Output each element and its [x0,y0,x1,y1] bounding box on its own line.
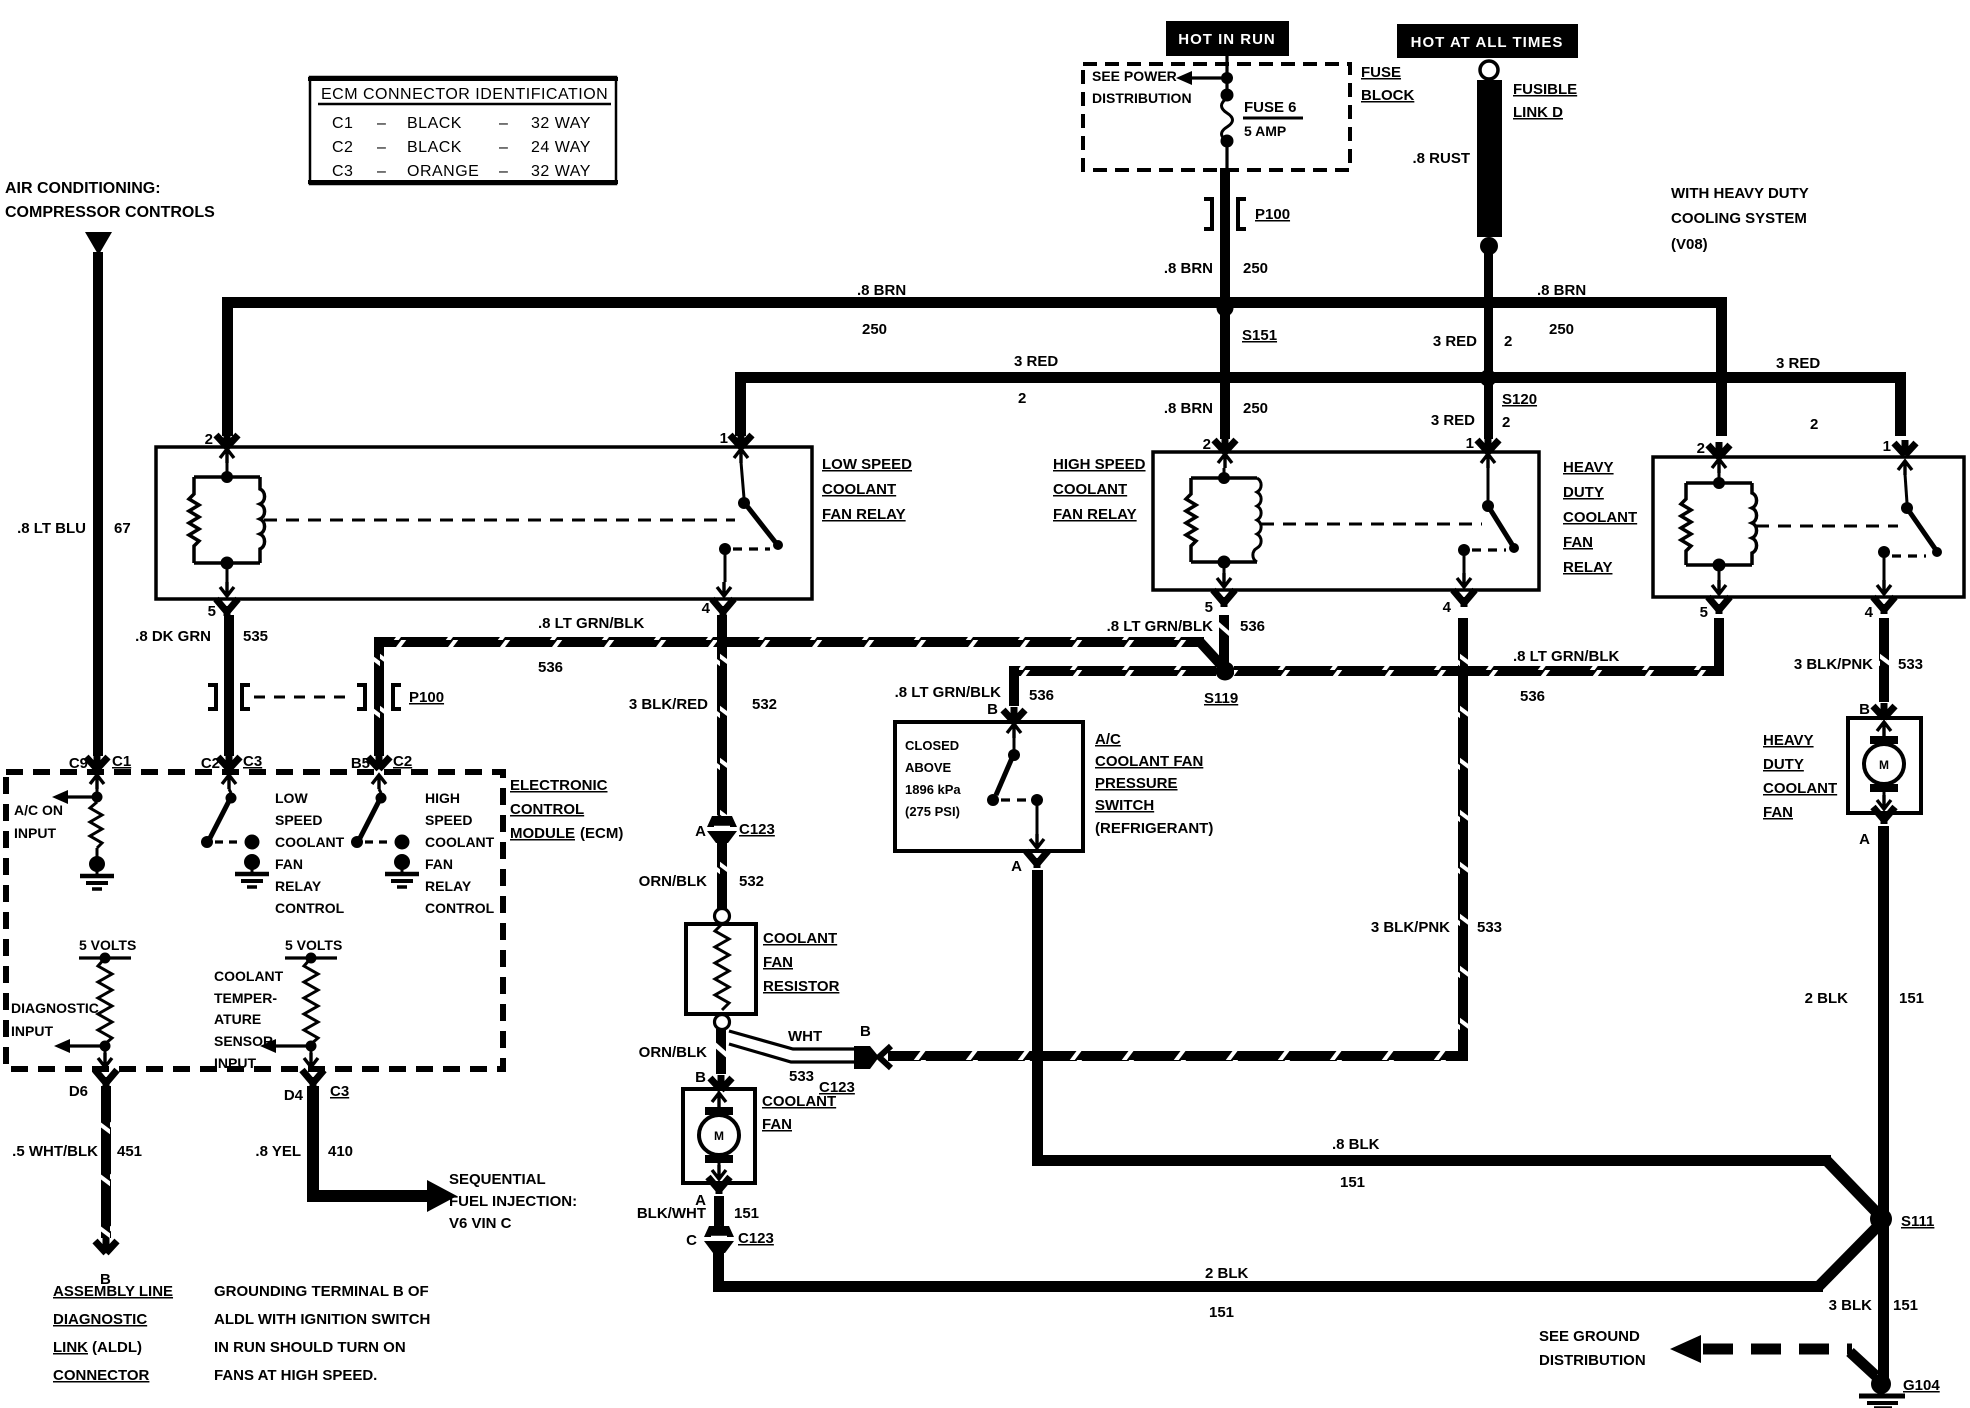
svg-text:5 AMP: 5 AMP [1244,123,1286,139]
HD relay switch [1877,474,1942,594]
svg-text:RELAY: RELAY [275,878,322,894]
HS relay coil [1186,468,1261,569]
svg-text:A: A [1859,831,1870,848]
splice S120 [1480,370,1538,432]
svg-text:ECM CONNECTOR IDENTIFICATION: ECM CONNECTOR IDENTIFICATION [321,86,608,103]
svg-text:INPUT: INPUT [11,1023,53,1039]
pressure switch A pin connector [1011,851,1048,875]
svg-text:DUTY: DUTY [1763,756,1804,773]
label COOLANT FAN RESISTOR [763,930,840,995]
label .8 LT GRN/BLK 536 at pressure switch [895,684,1054,718]
svg-text:536: 536 [1520,688,1545,705]
svg-text:4: 4 [702,600,711,617]
label .5 WHT/BLK 451 [12,1143,142,1160]
svg-text:451: 451 [117,1143,142,1160]
svg-text:C3: C3 [243,753,262,770]
label A/C COOLANT FAN PRESSURE SWITCH (REFRIGERANT) [1095,731,1213,837]
svg-text:HEAVY: HEAVY [1763,732,1814,749]
svg-text:32 WAY: 32 WAY [531,115,591,132]
svg-text:.8 LT GRN/BLK: .8 LT GRN/BLK [538,615,645,632]
coolant fan box [683,1089,755,1183]
arrow to sequential fuel injection [427,1180,457,1212]
svg-text:3 BLK/PNK: 3 BLK/PNK [1371,919,1450,936]
svg-text:FAN RELAY: FAN RELAY [1053,506,1137,523]
label HEAVY DUTY COOLANT FAN [1763,732,1837,821]
svg-text:V6 VIN C: V6 VIN C [449,1215,512,1232]
svg-text:.8 YEL: .8 YEL [255,1143,301,1160]
svg-text:5: 5 [208,603,216,620]
svg-text:FUSE: FUSE [1361,64,1401,81]
label 2 BLK 151 bottom [1205,1265,1249,1321]
svg-text:536: 536 [1029,687,1054,704]
svg-text:C2: C2 [393,753,412,770]
svg-text:ALDL WITH IGNITION SWITCH: ALDL WITH IGNITION SWITCH [214,1311,430,1328]
splice S111 [1870,1208,1934,1230]
svg-text:.8 BRN: .8 BRN [1164,400,1213,417]
svg-text:.8 LT GRN/BLK: .8 LT GRN/BLK [1107,618,1214,635]
svg-text:COOLANT: COOLANT [762,1093,836,1110]
svg-text:–: – [499,139,508,156]
A/C coolant fan pressure switch box [895,722,1083,851]
HD relay pin 2 connector [1697,440,1730,473]
coolant temp sensor input: 5 VOLTS resistor [260,937,342,1067]
svg-text:A: A [1011,858,1022,875]
wire 3 RED 2 horizontal bus [735,372,1906,436]
ECM pin D4 connector [284,1070,349,1104]
wire ORN/BLK to coolant fan B [716,1029,726,1074]
ground G104 [1859,1374,1940,1408]
svg-text:533: 533 [789,1068,814,1085]
label FUSE 6 / 5 AMP [1243,99,1303,139]
ground at low speed control [235,854,269,887]
banner HOT IN RUN [1166,21,1289,56]
label WHT 533 [788,1023,871,1085]
svg-text:DIAGNOSTIC: DIAGNOSTIC [11,1000,99,1016]
svg-text:DISTRIBUTION: DISTRIBUTION [1539,1352,1646,1369]
wire 536 vertical from P100 to ECM B5 [374,637,384,756]
svg-text:HIGH: HIGH [425,790,460,806]
label BLK/WHT 151 [637,1205,759,1222]
HD relay pin 5 connector [1700,571,1730,621]
svg-text:2: 2 [1203,436,1211,453]
svg-text:RESISTOR: RESISTOR [763,978,840,995]
svg-text:B: B [987,701,998,718]
label .8 DK GRN 535 [135,628,268,645]
label SEQUENTIAL FUEL INJECTION: V6 VIN C [449,1171,577,1232]
wire from HOT IN RUN into fuse [1225,56,1228,95]
svg-text:ASSEMBLY LINE: ASSEMBLY LINE [53,1283,173,1300]
svg-text:LOW: LOW [275,790,308,806]
svg-text:PRESSURE: PRESSURE [1095,775,1178,792]
svg-text:COOLANT: COOLANT [214,968,284,984]
svg-text:5 VOLTS: 5 VOLTS [79,937,136,953]
svg-text:C123: C123 [739,821,775,838]
svg-text:DUTY: DUTY [1563,484,1604,501]
svg-text:535: 535 [243,628,268,645]
svg-text:250: 250 [1549,321,1574,338]
svg-text:3 BLK: 3 BLK [1829,1297,1873,1314]
svg-text:3 RED: 3 RED [1431,412,1475,429]
label 2 BLK 151 [1805,990,1924,1007]
splice S151 [1217,300,1278,345]
HS relay coil-switch dashed link [1261,523,1482,526]
pressure switch B pin connector [1003,707,1025,738]
svg-text:ABOVE: ABOVE [905,760,952,775]
svg-text:COOLANT: COOLANT [275,834,345,850]
label LOW SPEED COOLANT FAN RELAY [822,456,912,523]
svg-text:(275 PSI): (275 PSI) [905,804,960,819]
wire .5 WHT/BLK 451 to ALDL [101,1086,111,1238]
label A/C ON INPUT [14,802,63,841]
svg-text:.5 WHT/BLK: .5 WHT/BLK [12,1143,98,1160]
wire .8 BLK 151 from pressure switch A to S111 [1032,870,1882,1218]
svg-text:WITH HEAVY DUTY: WITH HEAVY DUTY [1671,185,1809,202]
svg-text:COOLANT: COOLANT [822,481,896,498]
svg-text:P100: P100 [1255,206,1290,223]
svg-text:C3: C3 [330,1083,349,1100]
wire 2 BLK 151 from fan to S111 [713,1222,1882,1292]
svg-text:1896 kPa: 1896 kPa [905,782,961,797]
svg-text:3 RED: 3 RED [1014,353,1058,370]
wire .8 LT BLU from compressor controls [85,232,112,756]
svg-text:BLK/WHT: BLK/WHT [637,1205,706,1222]
high speed relay control switch [351,789,410,850]
svg-text:SPEED: SPEED [425,812,472,828]
label 3 RED 2 above S120 [1433,333,1513,350]
svg-text:532: 532 [739,873,764,890]
HS relay pin 5 connector [1205,568,1235,616]
svg-text:536: 536 [538,659,563,676]
HD relay coil-switch dashed link [1756,525,1898,528]
label 3 BLK/RED 532 [629,696,777,713]
svg-text:B: B [1859,701,1870,718]
label 3 RED 2 right [1776,355,1820,433]
svg-text:P100: P100 [409,689,444,706]
svg-text:S120: S120 [1502,391,1537,408]
svg-text:2: 2 [205,431,213,448]
svg-text:HOT IN RUN: HOT IN RUN [1178,31,1276,48]
svg-text:COOLING SYSTEM: COOLING SYSTEM [1671,210,1807,227]
label .8 BLK 151 [1332,1136,1380,1191]
svg-text:ATURE: ATURE [214,1011,261,1027]
pressure switch contacts [987,738,1044,848]
label .8 LT GRN/BLK 536 right segment [1513,648,1620,705]
svg-text:2 BLK: 2 BLK [1205,1265,1249,1282]
diagnostic input divider: 5 VOLTS resistor [54,937,136,1067]
svg-text:RELAY: RELAY [1563,559,1612,576]
label .8 YEL 410 [255,1143,353,1160]
svg-text:ORANGE: ORANGE [407,163,479,180]
coolant fan A connector [695,1177,730,1209]
wire 536 left of S119 to pressure switch [1009,666,1216,706]
svg-text:AIR CONDITIONING:: AIR CONDITIONING: [5,180,161,197]
svg-text:S119: S119 [1204,690,1238,707]
A/C on input circuit [52,789,103,858]
LS relay pin 1 connector [720,430,752,463]
label HEAVY DUTY COOLANT FAN RELAY [1563,459,1637,576]
label WITH HEAVY DUTY COOLING SYSTEM (V08) [1671,185,1809,253]
label .8 BRN 250 right [1537,282,1586,338]
svg-text:1: 1 [1883,438,1891,455]
svg-text:151: 151 [1340,1174,1365,1191]
connector P100 on DK GRN wire and 536 wire [208,685,444,709]
svg-text:24 WAY: 24 WAY [531,139,591,156]
svg-text:HOT AT ALL TIMES: HOT AT ALL TIMES [1411,34,1564,51]
svg-text:533: 533 [1898,656,1923,673]
label ELECTRONIC CONTROL MODULE (ECM) [510,777,623,842]
wire WHT 533 (hollow) [729,1031,856,1062]
LS relay pin 5 connector [208,569,238,620]
fuse F6 element [1221,89,1234,173]
svg-text:COOLANT: COOLANT [1053,481,1127,498]
wire 3 BLK 151 from S111 to G104 [1878,1219,1889,1384]
relay: HEAVY DUTY COOLANT FAN RELAY box [1653,457,1964,597]
svg-text:3 BLK/PNK: 3 BLK/PNK [1794,656,1873,673]
label .8 LT GRN/BLK 536 left segment [538,615,645,676]
fusible link D [1477,61,1502,255]
svg-text:.8 BRN: .8 BRN [857,282,906,299]
HD fan B connector [1859,701,1895,718]
svg-text:COOLANT: COOLANT [1763,780,1837,797]
HD relay coil [1681,473,1757,572]
svg-text:CONTROL: CONTROL [510,801,584,818]
wire 3 RED from fusible link down to relay [1484,250,1493,439]
svg-text:(REFRIGERANT): (REFRIGERANT) [1095,820,1213,837]
svg-text:–: – [499,163,508,180]
ECM pin C2/C3 connector [201,753,262,789]
svg-text:C3: C3 [332,163,353,180]
fuse block dashed box [1083,64,1350,170]
svg-text:BLACK: BLACK [407,139,462,156]
svg-text:S111: S111 [1901,1213,1934,1230]
svg-text:CONNECTOR: CONNECTOR [53,1367,150,1384]
ECM dashed box [6,772,503,1069]
svg-text:A: A [695,823,706,840]
svg-text:(V08): (V08) [1671,236,1708,253]
svg-text:–: – [377,115,386,132]
svg-text:250: 250 [1243,260,1268,277]
banner HOT AT ALL TIMES [1397,24,1578,58]
wire .8 BRN 250 from fuse down to relay [1220,168,1230,439]
svg-text:HIGH SPEED: HIGH SPEED [1053,456,1146,473]
heavy duty coolant fan box [1848,718,1921,813]
coolant fan B connector [710,1075,732,1090]
svg-text:536: 536 [1240,618,1265,635]
ALDL B terminal [95,1238,117,1288]
svg-text:LINK: LINK [53,1339,88,1356]
label AIR CONDITIONING: COMPRESSOR CONTROLS [5,180,215,221]
svg-text:ELECTRONIC: ELECTRONIC [510,777,608,794]
svg-text:ORN/BLK: ORN/BLK [639,873,707,890]
label FUSIBLE LINK D [1513,81,1577,121]
svg-text:4: 4 [1443,599,1452,616]
HD relay pin 4 connector [1865,597,1895,621]
svg-text:IN RUN SHOULD TURN ON: IN RUN SHOULD TURN ON [214,1339,406,1356]
svg-text:2 BLK: 2 BLK [1805,990,1849,1007]
LS relay coil [189,463,265,570]
ground at A/C on input [80,856,114,889]
wire 3 BLK/PNK 533 horizontal to HS pin4 [888,618,1468,1061]
arrow to power distribution [1176,71,1230,85]
svg-text:COOLANT FAN: COOLANT FAN [1095,753,1203,770]
wire 3 BLK/RED 532 from LS pin4 [717,615,727,818]
svg-text:INPUT: INPUT [214,1055,256,1071]
HS relay pin 4 connector [1443,590,1475,616]
svg-text:.8 BRN: .8 BRN [1537,282,1586,299]
svg-text:G104: G104 [1903,1377,1940,1394]
svg-text:FAN: FAN [1763,804,1793,821]
wire .8 DK GRN 535 from LS pin5 to ECM C2 [224,615,234,756]
svg-text:CONTROL: CONTROL [275,900,345,916]
label .8 LT BLU 67 [17,520,131,537]
svg-text:LINK D: LINK D [1513,104,1563,121]
note text GROUNDING TERMINAL [214,1283,430,1384]
svg-text:2: 2 [1810,416,1818,433]
svg-text:.8 LT GRN/BLK: .8 LT GRN/BLK [1513,648,1620,665]
svg-text:C1: C1 [332,115,353,132]
svg-text:–: – [377,139,386,156]
svg-text:S151: S151 [1242,327,1277,344]
svg-text:FUSIBLE: FUSIBLE [1513,81,1577,98]
svg-text:2: 2 [1502,414,1510,431]
svg-text:.8 LT BLU: .8 LT BLU [17,520,86,537]
svg-text:DIAGNOSTIC: DIAGNOSTIC [53,1311,147,1328]
label 3 RED 2 left [1014,353,1058,407]
relay: HIGH SPEED COOLANT FAN RELAY box [1153,452,1539,590]
label FUSE BLOCK [1361,64,1414,104]
label .8 BRN 250 left [857,282,906,338]
svg-text:B: B [860,1023,871,1040]
svg-text:–: – [377,163,386,180]
svg-text:1: 1 [1466,435,1474,452]
label ORN/BLK at fan B [639,1044,707,1086]
svg-text:INPUT: INPUT [14,825,56,841]
HD relay pin 1 connector [1883,438,1916,475]
label COOLANT FAN [762,1093,836,1133]
svg-text:2: 2 [1504,333,1512,350]
label HIGH SPEED COOLANT FAN RELAY [1053,456,1146,523]
label COOLANT TEMPERATURE SENSOR INPUT [214,968,284,1071]
svg-text:HEAVY: HEAVY [1563,459,1614,476]
svg-text:32 WAY: 32 WAY [531,163,591,180]
svg-text:SWITCH: SWITCH [1095,797,1154,814]
svg-text:RELAY: RELAY [425,878,472,894]
connector C123 A [695,816,775,843]
HS relay pin 1 connector [1466,435,1499,468]
svg-text:FAN: FAN [1563,534,1593,551]
arrow see ground distribution [1670,1335,1876,1376]
svg-text:.8 BRN: .8 BRN [1164,260,1213,277]
label .8 LT GRN/BLK 536 at HS pin 5 [1107,618,1265,635]
svg-text:SENSOR: SENSOR [214,1033,273,1049]
ECM pin B5/C2 connector [351,753,412,789]
ECM connector identification table [308,77,618,184]
connector P100 on fuse wire [1204,199,1290,229]
heavy duty fan motor [1864,722,1904,809]
svg-text:FUEL INJECTION:: FUEL INJECTION: [449,1193,577,1210]
wire .8 LT GRN/BLK 536 top horizontal [374,637,1222,666]
svg-text:5: 5 [1700,604,1708,621]
svg-text:COOLANT: COOLANT [763,930,837,947]
svg-text:FAN: FAN [275,856,303,872]
svg-text:SEE GROUND: SEE GROUND [1539,1328,1640,1345]
svg-text:C: C [686,1232,697,1249]
HS relay pin 2 connector [1203,436,1236,468]
wire 536 from HS pin5 to S119 [1219,615,1229,671]
svg-text:151: 151 [1899,990,1924,1007]
svg-text:67: 67 [114,520,131,537]
svg-text:D4: D4 [284,1087,304,1104]
svg-text:GROUNDING TERMINAL B OF: GROUNDING TERMINAL B OF [214,1283,429,1300]
svg-text:3 RED: 3 RED [1776,355,1820,372]
wire 3 BLK/PNK 533 from HD pin4 to HD fan B [1879,618,1889,702]
coolant fan motor [699,1093,739,1179]
connector C123 B (horizontal) [819,1046,891,1096]
wire ORN/BLK 532 to resistor [717,843,727,911]
node fuse top [1221,72,1233,84]
svg-text:3 BLK/RED: 3 BLK/RED [629,696,708,713]
svg-text:B: B [695,1069,706,1086]
low speed relay control switch [201,789,260,850]
label 3 BLK/PNK 533 [1371,919,1502,936]
svg-text:250: 250 [1243,400,1268,417]
svg-text:151: 151 [734,1205,759,1222]
svg-text:–: – [499,115,508,132]
svg-text:BLACK: BLACK [407,115,462,132]
svg-text:BLOCK: BLOCK [1361,87,1414,104]
svg-text:5: 5 [1205,599,1213,616]
svg-text:2: 2 [1697,440,1705,457]
svg-text:A/C: A/C [1095,731,1121,748]
relay: LOW SPEED COOLANT FAN RELAY box [156,447,812,599]
svg-text:A/C ON: A/C ON [14,802,63,818]
svg-text:CLOSED: CLOSED [905,738,959,753]
svg-text:FAN: FAN [763,954,793,971]
label DIAGNOSTIC INPUT [11,1000,99,1039]
LS relay switch [717,462,783,596]
svg-text:LOW SPEED: LOW SPEED [822,456,912,473]
svg-text:532: 532 [752,696,777,713]
svg-text:151: 151 [1209,1304,1234,1321]
label ASSEMBLY LINE DIAGNOSTIC LINK (ALDL) CONNECTOR [53,1283,173,1384]
svg-text:C2: C2 [332,139,353,156]
ECM pin C9/C1 connector [69,753,131,789]
LS relay coil-switch dashed link [264,519,735,522]
svg-text:2: 2 [1018,390,1026,407]
ECM pin D6 connector [69,1070,117,1100]
wire 2 BLK 151 from HD fan to S111 [1878,826,1889,1216]
svg-text:250: 250 [862,321,887,338]
svg-text:151: 151 [1893,1297,1918,1314]
svg-text:CONTROL: CONTROL [425,900,495,916]
svg-text:D6: D6 [69,1083,88,1100]
wire .8 YEL 410 [307,1086,429,1202]
svg-text:B5: B5 [351,755,370,772]
svg-text:TEMPER-: TEMPER- [214,990,277,1006]
svg-text:3 RED: 3 RED [1433,333,1477,350]
svg-text:.8 BLK: .8 BLK [1332,1136,1380,1153]
svg-text:C2: C2 [201,755,220,772]
svg-text:410: 410 [328,1143,353,1160]
coolant fan resistor [686,909,756,1030]
svg-text:DISTRIBUTION: DISTRIBUTION [1092,90,1192,106]
svg-text:COOLANT: COOLANT [1563,509,1637,526]
label HIGH SPEED COOLANT FAN RELAY CONTROL [425,790,495,916]
svg-text:.8 DK GRN: .8 DK GRN [135,628,211,645]
label SEE GROUND DISTRIBUTION [1539,1328,1646,1369]
svg-text:FUSE 6: FUSE 6 [1244,99,1297,116]
svg-text:SPEED: SPEED [275,812,322,828]
